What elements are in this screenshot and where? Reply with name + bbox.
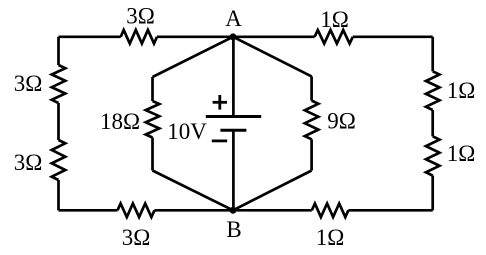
svg-text:18Ω: 18Ω	[100, 109, 140, 134]
wire 9ohm branch upper vertical	[310, 76, 313, 100]
wire bottom (node B to resistor)	[233, 209, 312, 212]
resistor 1ohm right lower	[426, 136, 440, 175]
resistor 3ohm left lower	[52, 140, 66, 180]
wire diagonal 18ohm branch to node B	[153, 171, 234, 211]
resistor 18ohm	[146, 101, 160, 138]
polarity plus sign	[213, 95, 227, 110]
wire right side middle	[431, 110, 434, 136]
wire left side lower	[57, 180, 60, 210]
svg-text:3Ω: 3Ω	[122, 225, 151, 250]
wire top-right horizontal	[353, 35, 433, 38]
battery 10V positive plate (long)	[206, 115, 261, 118]
resistor 9ohm	[305, 101, 319, 140]
wire right side lower	[431, 176, 434, 211]
svg-text:1Ω: 1Ω	[447, 141, 476, 166]
battery 10V negative plate (short)	[220, 129, 246, 132]
svg-text:9Ω: 9Ω	[327, 109, 356, 134]
svg-text:1Ω: 1Ω	[316, 225, 345, 250]
resistor 1ohm right upper	[426, 71, 440, 110]
node B junction dot	[230, 207, 237, 214]
resistor 3ohm left upper	[52, 65, 66, 103]
wire left side middle	[57, 103, 60, 140]
svg-text:10V: 10V	[167, 119, 207, 144]
svg-text:B: B	[226, 217, 241, 242]
resistor 3ohm top-left	[121, 30, 157, 44]
wire top-middle (resistor to node A)	[157, 35, 233, 38]
svg-text:3Ω: 3Ω	[14, 71, 43, 96]
svg-text:3Ω: 3Ω	[126, 4, 155, 29]
wire 18ohm branch upper vertical	[151, 77, 154, 101]
wire node A to battery positive plate	[232, 37, 235, 117]
wire battery negative plate to node B	[232, 130, 235, 210]
wire bottom-left horizontal	[59, 209, 118, 212]
svg-text:A: A	[225, 6, 242, 31]
wire diagonal 9ohm branch to node B	[233, 171, 312, 211]
resistor 1ohm top-right	[315, 30, 353, 44]
svg-text:1Ω: 1Ω	[320, 7, 349, 32]
polarity minus sign	[212, 139, 227, 142]
wire 9ohm branch lower vertical	[310, 139, 313, 170]
wire right side upper	[431, 37, 434, 72]
resistor 1ohm bottom-right	[312, 204, 349, 218]
wire diagonal node A to 18ohm branch	[153, 37, 234, 77]
wire left side upper	[57, 37, 60, 65]
wire top-left horizontal	[59, 35, 121, 38]
node A junction dot	[230, 33, 237, 40]
wire bottom-middle (resistor to node B)	[155, 209, 234, 212]
wire 18ohm branch lower vertical	[151, 138, 154, 171]
wire top (node A to resistor)	[233, 35, 315, 38]
wire diagonal node A to 9ohm branch	[233, 37, 312, 77]
resistor 3ohm bottom-left	[118, 204, 155, 218]
svg-text:3Ω: 3Ω	[14, 150, 43, 175]
svg-text:1Ω: 1Ω	[447, 78, 476, 103]
wire bottom-right horizontal	[348, 209, 432, 212]
